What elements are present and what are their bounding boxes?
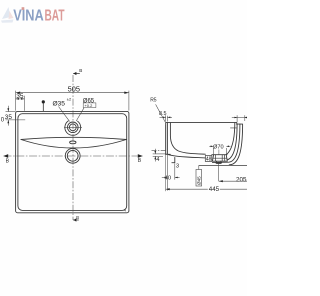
section arrow B left (3, 154, 8, 158)
drain body trapezoid (212, 155, 227, 162)
svg-text:205: 205 (236, 176, 247, 183)
horizontal centerline B-B (4, 155, 143, 157)
outer rim rect (plan view) (16, 111, 129, 212)
overflow slot oval (70, 141, 76, 144)
faucet hole outer circle (68, 122, 79, 133)
drain pipe (216, 161, 222, 163)
faucet recess arc (65, 121, 81, 135)
dim D70 (209, 146, 230, 154)
outer shell bottom (167, 154, 205, 158)
section flag bottom (73, 215, 79, 222)
tolerance box D65 (83, 103, 96, 108)
dim 445 (166, 188, 208, 190)
svg-text:B: B (138, 158, 142, 164)
rotated label box (196, 170, 202, 187)
svg-text:±2: ±2 (67, 97, 72, 102)
back wall middle line (212, 124, 240, 162)
drain flange top (212, 154, 227, 156)
section flag top (73, 68, 82, 75)
vertical centerline (72, 75, 74, 220)
overflow channel inner wall (228, 123, 238, 160)
front wall outer (166, 123, 168, 155)
front wall inner / bowl surface (170, 123, 205, 155)
section centerline stub (152, 150, 167, 152)
svg-text:3: 3 (176, 164, 179, 170)
svg-text:505: 505 (68, 84, 80, 93)
svg-text:B: B (76, 215, 79, 220)
dim top right (232, 115, 247, 122)
svg-text:Ø70: Ø70 (213, 145, 224, 151)
svg-text:4: 4 (156, 157, 160, 163)
back ledge top (237, 123, 243, 125)
dim 205 (219, 180, 247, 182)
label box lead (198, 165, 200, 169)
label 48 box (205, 156, 212, 162)
bowl back surface (226, 123, 235, 155)
drain body mid line (213, 157, 227, 159)
dim 505 (16, 91, 129, 111)
svg-text:445: 445 (209, 186, 220, 193)
fixing hole marker (42, 104, 44, 112)
step under bowl (172, 157, 175, 162)
svg-text:R5: R5 (150, 98, 157, 104)
dim 8.5 (160, 115, 173, 121)
logo dot on I (22, 7, 25, 10)
counter line to edge (199, 164, 247, 166)
svg-text:Ø35: Ø35 (53, 100, 66, 107)
svg-text:8.5: 8.5 (159, 111, 167, 117)
basin front edge curve (21, 140, 126, 149)
drain inner circle (67, 150, 78, 161)
svg-text:B: B (79, 68, 82, 73)
dim 35 top-left (16, 96, 25, 111)
faucet crosshair horizontal (64, 126, 82, 128)
drain centerline (218, 163, 220, 181)
leader D35 (59, 107, 70, 122)
svg-text:48: 48 (206, 157, 212, 163)
svg-text:35: 35 (5, 114, 13, 121)
drain body inner walls (216, 155, 225, 162)
wall bottom close (166, 153, 171, 155)
rim inner tick (230, 127, 236, 129)
faucet hole inner circle (69, 124, 76, 131)
section arrow B right (138, 154, 143, 158)
back wall outer line (229, 124, 242, 164)
dim 4 (153, 149, 167, 162)
dim 40 (162, 155, 180, 191)
inner rim rect (plan view) (18, 114, 127, 211)
drain outer circle (65, 148, 80, 163)
basin opening top edge (21, 137, 126, 139)
front lip outer line (165, 123, 167, 155)
svg-text:35: 35 (16, 93, 24, 100)
logo icon (1, 7, 14, 23)
svg-text:BAT: BAT (45, 8, 65, 25)
svg-text:Ø45: Ø45 (196, 176, 201, 185)
svg-text:+0.2: +0.2 (84, 103, 93, 108)
dim 35 left vertical (6, 106, 26, 126)
deck top line (166, 122, 237, 124)
leader D65 (76, 108, 84, 121)
svg-text:B: B (6, 159, 10, 165)
svg-text:VINA: VINA (13, 8, 44, 25)
